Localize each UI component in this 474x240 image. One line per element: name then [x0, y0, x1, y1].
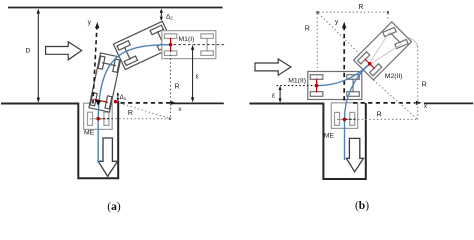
path direction arrowhead (a) [95, 100, 101, 106]
dotted radius line M1 to centre (a) [170, 47, 172, 119]
black dash start of ME radius (b) [345, 118, 359, 120]
svg-text:R: R [422, 82, 427, 89]
delta2 measurement arrow (a) [160, 9, 163, 21]
svg-text:D: D [26, 48, 31, 55]
svg-text:M1(I): M1(I) [179, 36, 195, 43]
centre point marker (a) [169, 118, 171, 120]
bottom road edge with parking bay (a) [1, 101, 118, 178]
svg-text:ME: ME [84, 130, 95, 137]
svg-text:(b): (b) [355, 200, 369, 212]
swept corner grey curve (b) [409, 38, 418, 48]
dotted radius centre C1 to M1 dot (b) [316, 14, 318, 85]
M1 centerline dashes (a) [174, 44, 226, 46]
y axis dashed (b) [343, 25, 345, 101]
svg-text:Δ1: Δ1 [120, 94, 127, 101]
svg-text:Δ2: Δ2 [166, 14, 173, 21]
vehicle pose 3 (ego at bay entrance) (a) [89, 53, 121, 112]
svg-text:ME: ME [324, 133, 335, 140]
red dot bay corner (a) [114, 100, 118, 104]
y axis arrowhead (a) [95, 22, 100, 28]
svg-text:R: R [305, 26, 310, 33]
y axis arrowhead (b) [342, 22, 347, 28]
svg-text:M2(II): M2(II) [385, 73, 403, 80]
epsilon measurement arrow (a) [191, 45, 194, 103]
svg-text:ε: ε [196, 74, 199, 81]
x axis arrowhead (a) [170, 101, 176, 105]
vehicle ME (ego parked, partial) (a) [84, 103, 113, 129]
centre C1 marker (b) [316, 11, 318, 13]
dotted line bay corner to centre (a) [116, 102, 170, 118]
red dot M1(II) rear axle [315, 84, 319, 88]
svg-text:y: y [88, 19, 92, 26]
D measurement arrow (a) [37, 9, 40, 103]
dotted top horizontal radius (b) [319, 11, 388, 13]
road edge with parking bay (b) [249, 103, 365, 179]
x axis dashed (a) [121, 102, 171, 104]
y axis dashed (a) [93, 25, 97, 104]
svg-text:ε: ε [272, 92, 275, 99]
blue parking path (a) [98, 45, 170, 163]
top road edge line (a) [8, 7, 223, 9]
dotted diagonal C1 to M2 dot (b) [318, 13, 369, 63]
svg-text:R: R [358, 4, 363, 11]
red dot M1 rear axle (a) [169, 43, 173, 47]
delta1 mini arrow (a) [117, 92, 120, 101]
svg-text:y: y [335, 19, 339, 26]
x axis arrowhead (b) [416, 101, 422, 105]
top right corner marker (b) [387, 11, 389, 13]
reverse direction block arrow in bay (b) [346, 138, 363, 171]
epsilon dotted line (b) [277, 85, 317, 87]
dotted diagonal M2 corner to centre C2 (b) [373, 80, 417, 119]
dotted radius line ME to centre (a) [100, 118, 170, 120]
road edge right segment (a) [172, 102, 224, 104]
svg-text:M1(II): M1(II) [288, 78, 306, 85]
black dash start of ME radius (a) [98, 118, 113, 120]
epsilon measurement arrow (b) [279, 86, 282, 103]
traffic direction block arrow (b) [255, 59, 291, 75]
svg-text:R: R [128, 110, 133, 117]
dotted radius ME to centre C2 (b) [347, 118, 418, 120]
svg-text:R: R [377, 112, 382, 119]
svg-text:(a): (a) [107, 201, 121, 213]
vehicle pose 2 (ego mid manoeuvre) (a) [113, 21, 174, 69]
x axis dashed (b) [353, 102, 415, 104]
red dot ME rear axle (a) [96, 117, 100, 121]
road edge right segment (b) [424, 102, 473, 104]
dotted vertical radius right (b) [417, 46, 419, 119]
short dotted vertical from top right corner (b) [387, 14, 389, 22]
vehicle M1(II) (b) [308, 72, 362, 100]
svg-text:R: R [175, 83, 180, 90]
vehicle M1(I) (ego start pose) (a) [162, 31, 216, 59]
vehicle M2(II) (b) [354, 22, 412, 80]
blue parking path (b) [317, 64, 370, 160]
traffic direction block arrow (a) [46, 42, 82, 60]
vehicle ME (ego parked, partial) (b) [331, 103, 357, 129]
red dot ME rear axle (b) [343, 118, 347, 122]
reverse direction block arrow in bay (a) [98, 138, 117, 176]
red dot M2(II) rear axle [368, 62, 372, 66]
